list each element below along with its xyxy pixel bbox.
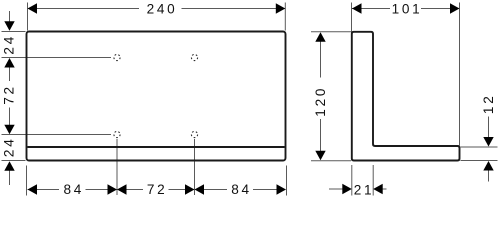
- svg-text:21: 21: [354, 182, 375, 197]
- svg-text:12: 12: [481, 94, 496, 115]
- svg-text:24: 24: [2, 137, 17, 158]
- svg-text:84: 84: [64, 182, 85, 197]
- svg-text:72: 72: [147, 182, 168, 197]
- svg-text:84: 84: [231, 182, 252, 197]
- svg-text:101: 101: [392, 2, 423, 17]
- svg-text:72: 72: [2, 84, 17, 105]
- svg-text:240: 240: [147, 2, 178, 17]
- svg-text:120: 120: [313, 86, 328, 117]
- svg-text:24: 24: [2, 34, 17, 55]
